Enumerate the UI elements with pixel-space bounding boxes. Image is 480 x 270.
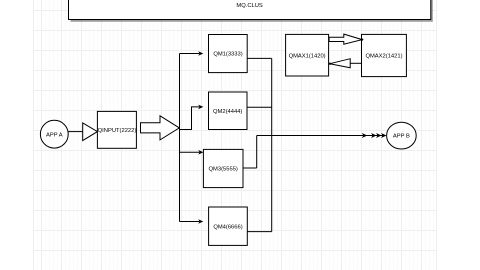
arrowhead into QM3 — [198, 150, 203, 155]
wire branch to QM1 — [180, 53, 200, 55]
arrowhead 2 on APP B wire — [371, 133, 376, 138]
wire QM2 exit — [247, 106, 272, 108]
wire to APP B — [257, 135, 383, 137]
box QM1(3333) — [209, 35, 248, 73]
arrowhead into QM4 — [198, 219, 203, 224]
arrowhead into QM2 — [198, 105, 203, 110]
box QINPUT(2222) — [97, 111, 136, 148]
hollow arrow QMAX1 to QMAX2 — [329, 34, 362, 44]
arrowhead into QM1 — [198, 51, 203, 56]
hollow arrow QMAX2 to QMAX1 head — [330, 59, 350, 68]
box QM3(5555) — [203, 149, 243, 187]
wire QM3 exit — [243, 136, 257, 169]
svg-text:APP A: APP A — [46, 132, 63, 138]
box QMAX2(1421) — [362, 34, 407, 76]
arrowhead 1 on APP B wire — [362, 133, 367, 138]
wire distribution vertical — [179, 54, 181, 222]
node APP A — [40, 120, 68, 148]
svg-text:QMAX2(1421): QMAX2(1421) — [365, 54, 402, 60]
wire branch to QM2 — [180, 107, 200, 130]
svg-text:QM4(6666): QM4(6666) — [213, 224, 242, 230]
connection dot at QMAX2 — [361, 39, 363, 41]
wire QMAX2 to arrow shaft — [350, 62, 361, 64]
wire QM1 exit — [247, 57, 272, 59]
box QM2(4444) — [209, 92, 248, 130]
container MQ.CLUS shadow — [71, 0, 433, 22]
wire branch to QM3 — [180, 151, 200, 153]
box QM4(6666) — [209, 207, 248, 245]
wire APP A to triangle — [68, 131, 83, 133]
connection dot at QMAX1 — [329, 63, 331, 65]
wire branch to QM4 — [180, 221, 200, 223]
box QMAX1(1420) — [286, 34, 329, 76]
arrowhead 3 on APP B wire — [376, 133, 381, 138]
svg-text:QMAX1(1420): QMAX1(1420) — [289, 53, 326, 59]
wire collector vertical — [271, 58, 273, 231]
svg-text:APP B: APP B — [393, 134, 410, 140]
svg-text:MQ.CLUS: MQ.CLUS — [236, 3, 263, 9]
big hollow arrow — [141, 116, 180, 140]
svg-text:QM1(3333): QM1(3333) — [213, 52, 242, 58]
svg-text:QM3(5555): QM3(5555) — [209, 167, 238, 173]
wire QM4 exit — [247, 231, 271, 233]
node APP B — [387, 122, 417, 149]
arrowhead 4 on APP B wire — [381, 133, 386, 138]
svg-text:QINPUT(2222): QINPUT(2222) — [98, 128, 137, 134]
triangle connector — [83, 123, 98, 141]
container MQ.CLUS — [69, 0, 431, 20]
svg-text:QM2(4444): QM2(4444) — [213, 109, 242, 115]
